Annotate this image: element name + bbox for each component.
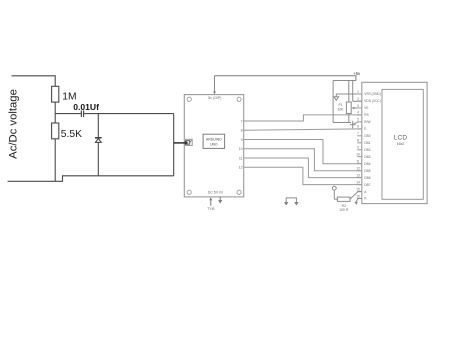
svg-text:DB5: DB5 [364,169,370,173]
svg-text:DC 5V IN: DC 5V IN [208,191,224,195]
svg-text:16: 16 [356,194,360,198]
resistor R3 100R body [337,197,350,201]
label 5.5K [61,129,82,140]
svg-text:DB6: DB6 [364,176,370,180]
svg-text:E: E [364,127,366,131]
svg-text:DB3: DB3 [364,155,370,159]
svg-text:RS: RS [364,113,368,117]
label 100 R [339,208,349,212]
wire bottom rail [8,176,174,182]
pot wiper arrow [351,107,356,110]
potentiometer P1 10K body [346,102,351,114]
svg-text:7: 7 [357,132,359,136]
diode D1 [95,138,102,143]
pin 9 label Arduino [241,138,243,142]
pin 8 label Arduino [241,129,243,133]
svg-text:VDD (VCC): VDD (VCC) [364,99,380,103]
capacitor C1 0.01Uf [81,111,83,118]
svg-text:10: 10 [356,153,360,157]
svg-text:R/W: R/W [364,120,370,124]
wire R2 to bottom rail [54,139,56,182]
svg-text:1M: 1M [62,92,76,103]
ground bracket pair bottom center [284,198,299,206]
wire VDD to LCD pin 2 [353,100,362,102]
wire DC5V input below board [210,197,213,206]
wire R1 to node [54,102,56,123]
svg-text:12: 12 [239,166,243,170]
wire tap to Arduino connector [174,142,185,144]
svg-text:Ac/Dc voltage: Ac/Dc voltage [7,89,19,159]
wire pot bottom down to R/W line [348,114,350,123]
pin 7 label Arduino [241,119,243,123]
power symbol at backlight [332,186,336,199]
LCD pin names [364,92,380,201]
wire top-left input [12,76,56,87]
svg-text:UNO: UNO [210,143,218,147]
svg-text:5.5K: 5.5K [61,129,82,140]
pin 10 label Arduino [239,147,243,151]
svg-text:3: 3 [357,104,359,108]
svg-text:10K: 10K [338,108,345,112]
svg-text:6: 6 [357,125,359,129]
wire to pot top [348,81,350,103]
wire Arduino pin10 to LCD DB5 [244,149,362,171]
wire LCD K pin to ground [356,199,362,203]
wire R/W horizontal [333,122,351,124]
svg-text:0.01Uf: 0.01Uf [73,102,99,112]
svg-text:P1: P1 [339,103,343,107]
mounting hole top-right [237,97,241,101]
label R2 [342,204,346,208]
svg-text:8: 8 [357,139,359,143]
svg-text:15: 15 [356,187,360,191]
wire Arduino pin9 to LCD DB4 [244,140,362,164]
svg-text:+5v: +5v [353,71,361,76]
op board U1 Arduino UNO [184,95,243,197]
wire Arduino pin11 to LCD DB6 [244,158,362,178]
node label Ac/Dc voltage [7,89,19,159]
connector J1 on Arduino left edge [184,139,193,145]
svg-text:9: 9 [241,138,243,142]
label DC 5V IN [208,191,224,195]
svg-text:14: 14 [356,180,360,184]
wire node horizontal (left of capacitor) [55,113,81,115]
wire 5V output up from board [213,76,216,95]
svg-text:12: 12 [356,167,360,171]
svg-text:13: 13 [356,173,360,177]
wire VDD branch vertical [352,81,354,102]
svg-text:16x2: 16x2 [397,142,405,146]
label ARDUINO UNO box [203,134,225,148]
wire left rail down to R/W [332,81,334,123]
mounting hole bottom-right [237,190,241,194]
svg-text:DB0: DB0 [364,134,370,138]
label 0.01Uf [73,102,99,112]
svg-text:7: 7 [241,119,243,123]
LCD module LCD1 body [362,82,427,203]
label LCD 16x2 [394,135,407,146]
svg-text:11: 11 [356,160,360,164]
ground symbol at VSS [334,94,339,100]
wire wiper to LCD pin 3 [356,107,362,109]
svg-text:LCD: LCD [394,135,407,142]
wire 5V sub-rail [333,80,356,82]
svg-text:5: 5 [357,118,359,122]
LCD pin numbers [356,90,360,199]
wire node horizontal (right of capacitor) [84,113,174,115]
wire R3 to LCD A pin [350,192,362,200]
svg-text:10: 10 [239,147,243,151]
svg-text:1: 1 [357,90,359,94]
wire power to R3 [334,198,337,200]
svg-text:9: 9 [357,146,359,150]
svg-text:DB1: DB1 [364,141,370,145]
label P1 10K [338,103,345,112]
svg-text:4: 4 [357,111,359,115]
pin 11 label Arduino [239,156,243,160]
power +5v symbol [353,71,361,76]
svg-text:VSS (GND): VSS (GND) [364,92,380,96]
ground below board [218,197,222,204]
LCD pin stubs 1-16 [357,94,362,199]
mounting hole bottom-left [187,190,191,194]
ground at K [354,202,358,205]
wire VSS to LCD pin 1 [336,93,362,95]
svg-text:11: 11 [239,156,243,160]
LCD screen inner rect [382,89,423,199]
svg-text:DB2: DB2 [364,148,370,152]
wire diode branch vertical [97,114,99,176]
label 1M [62,92,76,103]
node label TYB [207,207,215,211]
wire right vertical of input loop [173,114,175,176]
junction cross at R/W [350,121,358,129]
pin 12 label Arduino [239,166,243,170]
wire Arduino pin7 to LCD RS [244,115,362,121]
svg-text:DB4: DB4 [364,162,370,166]
svg-text:VE: VE [364,106,368,110]
wire Arduino pin12 to LCD DB7 [244,167,362,184]
svg-text:100 R: 100 R [339,208,349,212]
mounting hole top-left [187,97,191,101]
resistor R2 5.5K [52,123,59,139]
svg-text:8: 8 [241,129,243,133]
svg-text:TYB: TYB [207,207,215,211]
svg-text:DB7: DB7 [364,183,370,187]
wire Arduino pin8 to LCD E [244,129,362,130]
resistor R1 1M [52,86,59,102]
wire 5V rail top horizontal [215,76,356,81]
svg-text:5v (O/P): 5v (O/P) [208,96,221,100]
label 5v (O/P) [208,96,221,100]
svg-text:2: 2 [357,97,359,101]
svg-text:ARDUINO: ARDUINO [206,137,222,141]
